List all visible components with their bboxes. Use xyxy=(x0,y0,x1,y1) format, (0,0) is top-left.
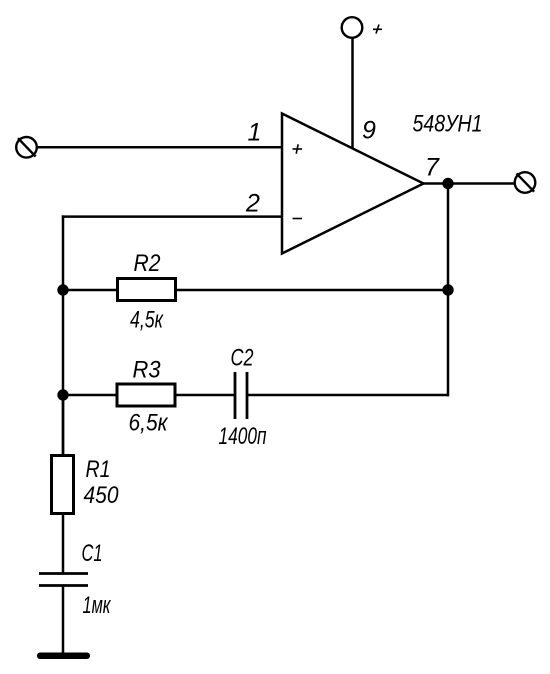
svg-text:548УН1: 548УН1 xyxy=(413,111,483,138)
capacitor C1 xyxy=(39,574,88,586)
node R2 left junction xyxy=(57,284,68,295)
wire R2 left xyxy=(63,289,117,292)
wire input to pin 1 xyxy=(37,146,283,149)
wire output vertical to feedback xyxy=(447,184,450,397)
svg-text:7: 7 xyxy=(425,154,440,182)
svg-text:1400п: 1400п xyxy=(219,423,267,450)
svg-text:C2: C2 xyxy=(231,345,254,372)
ground xyxy=(37,653,90,660)
node R3 left junction xyxy=(57,389,68,400)
wire C1 to ground xyxy=(62,586,65,654)
svg-text:450: 450 xyxy=(84,482,120,509)
input terminal XS1 xyxy=(16,137,37,158)
op-amp inverting input minus sign xyxy=(293,218,303,220)
wire R2 right xyxy=(177,289,449,292)
capacitor C2 xyxy=(235,372,247,419)
svg-text:R3: R3 xyxy=(133,357,162,384)
resistor R3 xyxy=(117,384,175,406)
wire power to pin 9 xyxy=(351,38,354,149)
node output junction xyxy=(442,178,453,189)
svg-text:1: 1 xyxy=(248,119,262,147)
svg-text:R2: R2 xyxy=(134,250,161,277)
svg-text:2: 2 xyxy=(245,190,260,218)
svg-text:C1: C1 xyxy=(82,540,103,567)
resistor R1 xyxy=(52,456,74,514)
wire R1 to C1 xyxy=(62,514,65,574)
power plus label xyxy=(373,25,382,34)
svg-text:R1: R1 xyxy=(86,456,111,483)
resistor R2 xyxy=(118,279,176,301)
op-amp noninverting input plus sign xyxy=(293,144,303,153)
svg-text:1мк: 1мк xyxy=(83,592,112,619)
wire C2 to output bus xyxy=(248,394,449,397)
wire node B to R1 xyxy=(62,395,65,456)
wire R3 to C2 xyxy=(176,394,234,397)
output terminal XS2 xyxy=(515,172,536,193)
power terminal xyxy=(342,17,363,38)
node R2 right junction xyxy=(442,284,453,295)
wire output xyxy=(424,182,516,185)
svg-text:6,5к: 6,5к xyxy=(129,410,169,437)
wire R3 left xyxy=(63,394,116,397)
wire pin 2 horizontal xyxy=(62,215,283,218)
svg-text:4,5к: 4,5к xyxy=(130,307,164,334)
wire left vertical bus xyxy=(62,215,65,456)
svg-text:9: 9 xyxy=(362,117,376,145)
op-amp U1 xyxy=(282,114,424,254)
